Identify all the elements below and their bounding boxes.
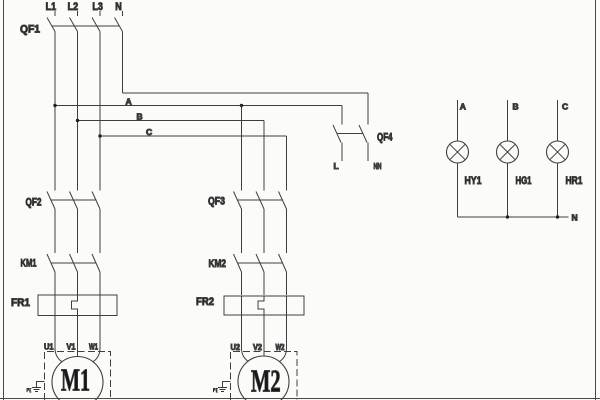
svg-text:FR2: FR2	[196, 296, 214, 308]
motor M2 enclosure dashed box	[231, 352, 298, 400]
wire L3 vertical	[99, 32, 101, 191]
contactor KM1 pole 3 blade	[92, 254, 100, 272]
wire QF3-KM2 phase 1	[241, 209, 243, 253]
wire M1 entry U1 curve	[55, 348, 62, 362]
svg-text:C: C	[146, 127, 152, 137]
wire lamp C top	[557, 100, 559, 141]
breaker QF2 pole 3 blade	[92, 192, 100, 210]
wire M2 entry U2 curve	[242, 348, 249, 362]
breaker QF1 pole 2 terminal	[77, 11, 79, 16]
overload relay FR2 phase 3 through-wire	[286, 296, 288, 348]
wire N drop to QF4	[367, 93, 369, 125]
lamp HR1 circle	[547, 141, 569, 163]
svg-text:B: B	[137, 112, 143, 122]
junction B-L2	[76, 119, 79, 122]
overload relay FR2 box	[224, 296, 304, 315]
breaker QF1 linkage	[51, 25, 119, 27]
wire QF3-KM2 phase 3	[286, 209, 288, 253]
contactor KM1 linkage	[51, 262, 96, 264]
svg-text:NN: NN	[374, 161, 382, 171]
svg-text:QF4: QF4	[377, 132, 393, 144]
node C bus	[100, 135, 287, 137]
overload relay FR1 heater element	[72, 295, 78, 357]
breaker QF1 pole 4 terminal	[122, 11, 124, 16]
svg-text:QF2: QF2	[26, 197, 42, 209]
wire KM1-FR1 phase 3	[99, 272, 101, 295]
wire QF2-KM1 phase 2	[77, 209, 79, 253]
overload relay FR1 phase 3 through-wire	[99, 295, 101, 348]
breaker QF1 pole 2 blade	[70, 18, 78, 32]
ground PE wire M1	[37, 382, 45, 387]
lamp HG1 cross	[500, 144, 516, 160]
svg-text:FR1: FR1	[11, 297, 30, 309]
breaker QF1 pole 3 terminal	[99, 11, 101, 16]
wire A drop to QF3	[241, 106, 243, 191]
ground PE label M2	[214, 388, 218, 392]
junction A-QF3	[240, 104, 243, 107]
breaker QF3 linkage	[238, 199, 283, 201]
contactor KM2 pole 1 blade	[234, 254, 242, 272]
wire QF2-KM1 phase 3	[99, 209, 101, 253]
wire M2 entry W2 curve	[280, 348, 287, 362]
motor M1 circle	[52, 357, 103, 400]
wire QF2-KM1 phase 1	[54, 209, 56, 253]
svg-text:L: L	[334, 161, 339, 171]
ground PE label M1	[27, 388, 31, 392]
svg-text:N: N	[115, 1, 122, 13]
breaker QF1 pole 4 blade	[115, 18, 123, 32]
contactor KM1 pole 1 blade	[47, 254, 55, 272]
wire KM1-FR1 phase 1	[54, 272, 56, 295]
breaker QF4 pole L blade	[333, 125, 341, 143]
ground PE wire M2	[223, 382, 231, 387]
svg-text:QF3: QF3	[208, 196, 225, 208]
wire KM2-FR2 phase 3	[286, 272, 288, 295]
breaker QF4 linkage	[337, 133, 362, 135]
junction lamp C neutral	[556, 215, 559, 218]
breaker QF4 pole NN blade	[359, 125, 367, 143]
wire M1 entry W1 curve	[93, 348, 100, 362]
ground PE symbol M1	[32, 388, 41, 392]
breaker QF3 pole 1 blade	[234, 192, 242, 210]
node B bus	[78, 120, 265, 122]
wire L1 vertical	[54, 32, 56, 191]
wire N vertical	[122, 32, 124, 94]
breaker QF3 pole 2 blade	[256, 192, 264, 210]
svg-text:KM2: KM2	[209, 258, 227, 270]
node A bus	[55, 105, 342, 107]
breaker QF2 linkage	[51, 199, 96, 201]
lamp HY1 cross	[450, 144, 466, 160]
wire lamp C bottom	[557, 163, 559, 217]
wire KM2-FR2 phase 2	[263, 272, 265, 295]
wire B drop to QF3	[263, 121, 265, 191]
overload relay FR2 phase 1 through-wire	[241, 296, 243, 348]
wire lamp B bottom	[507, 163, 509, 217]
overload relay FR1 box	[38, 295, 117, 315]
svg-text:V2: V2	[253, 342, 262, 352]
overload relay FR1 phase 1 through-wire	[54, 295, 56, 348]
breaker QF1 pole 1 terminal	[54, 11, 56, 16]
border frame bottom	[0, 398, 600, 400]
breaker QF3 pole 3 blade	[279, 192, 287, 210]
breaker QF1 pole 1 blade	[47, 18, 55, 32]
svg-text:A: A	[126, 97, 132, 107]
svg-text:HY1: HY1	[465, 175, 482, 187]
wire lamp A bottom	[457, 163, 459, 217]
lamp HR1 cross	[550, 144, 566, 160]
wire lamp neutral bus	[458, 216, 569, 218]
junction lamp B neutral	[506, 215, 509, 218]
svg-text:N: N	[572, 213, 578, 223]
svg-text:U1: U1	[44, 342, 54, 352]
lamp HY1 circle	[447, 141, 469, 163]
breaker QF1 pole 3 blade	[92, 18, 100, 32]
svg-text:HG1: HG1	[516, 175, 532, 187]
wire QF3-KM2 phase 2	[263, 209, 265, 253]
lamp HG1 circle	[497, 141, 519, 163]
wire lamp B top	[507, 100, 509, 141]
motor M2 circle	[238, 356, 289, 400]
junction C-L3	[98, 134, 101, 137]
overload relay FR2 heater element	[258, 296, 264, 356]
svg-text:HR1: HR1	[566, 175, 583, 187]
contactor KM2 linkage	[238, 262, 283, 264]
border frame right	[595, 0, 597, 400]
svg-text:W2: W2	[276, 342, 285, 352]
svg-text:QF1: QF1	[20, 24, 40, 36]
wire KM1-FR1 phase 2	[77, 272, 79, 295]
wire N horizontal run	[123, 92, 369, 94]
contactor KM2 pole 3 blade	[279, 254, 287, 272]
svg-text:U2: U2	[231, 342, 241, 352]
wire C drop to QF3	[286, 136, 288, 191]
breaker QF2 pole 2 blade	[70, 192, 78, 210]
wire L2 vertical	[77, 32, 79, 191]
junction A-L1	[53, 104, 56, 107]
wire lamp A top	[457, 100, 459, 141]
svg-text:M1: M1	[61, 362, 90, 398]
svg-text:L2: L2	[68, 1, 79, 13]
contactor KM1 pole 2 blade	[70, 254, 78, 272]
wire QF4 NN bottom	[367, 143, 369, 162]
motor M1 enclosure dashed box	[45, 352, 111, 400]
breaker QF2 pole 1 blade	[47, 192, 55, 210]
svg-text:KM1: KM1	[21, 258, 37, 270]
svg-text:A: A	[460, 102, 466, 112]
wire KM2-FR2 phase 1	[241, 272, 243, 295]
wire QF4 L bottom	[341, 143, 343, 162]
svg-text:B: B	[513, 102, 519, 112]
wire A drop to QF4	[341, 106, 343, 125]
svg-text:L3: L3	[92, 1, 103, 13]
ground PE symbol M2	[218, 388, 227, 392]
svg-text:M2: M2	[251, 363, 281, 399]
contactor KM2 pole 2 blade	[256, 254, 264, 272]
svg-text:W1: W1	[89, 342, 98, 352]
border frame left	[3, 0, 5, 400]
svg-text:V1: V1	[67, 342, 76, 352]
svg-text:C: C	[562, 102, 568, 112]
